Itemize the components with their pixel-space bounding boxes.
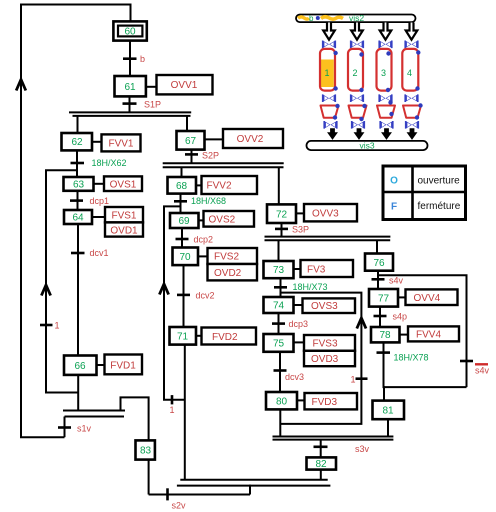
discharge arrow 3 (383, 129, 391, 139)
hollow arrow feed 2 (351, 23, 363, 40)
cylinder 1 with yellow charge (319, 49, 338, 91)
wire up to bottom convergence (249, 485, 251, 495)
svg-text:4: 4 (407, 68, 412, 78)
svg-text:ouverture: ouverture (418, 175, 461, 186)
step 67 (177, 131, 205, 150)
valve V4 top (405, 41, 418, 49)
wire 78 down to 81 (383, 342, 386, 400)
svg-text:FVS3: FVS3 (313, 339, 338, 350)
wire 62 to 63 (76, 150, 78, 177)
wire 83 down (148, 460, 150, 495)
hopper 4 (403, 103, 423, 119)
action OVV4 (406, 289, 458, 305)
wire 68 to FVV2 (196, 184, 202, 186)
transition s4p (374, 312, 408, 322)
svg-text:63: 63 (73, 179, 85, 190)
step 72 (267, 204, 296, 223)
svg-text:OVD1: OVD1 (110, 225, 138, 236)
transition s3v (314, 444, 370, 454)
action FVV4 (408, 326, 459, 341)
vis2 feeder bar (296, 13, 416, 23)
svg-text:ferméture: ferméture (418, 201, 461, 212)
svg-text:dcv3: dcv3 (285, 372, 304, 382)
wire 71 to FVD2 (196, 335, 202, 337)
discharge arrow 2 (355, 129, 363, 139)
wire 74 to OVS3 (294, 304, 303, 306)
action OVV2 (223, 129, 283, 148)
valve V3 mid (379, 94, 392, 102)
wire 68 to 69 (180, 194, 182, 213)
action OVD2 (208, 264, 258, 280)
wire main feedback loop left side (21, 5, 131, 438)
svg-text:OVV2: OVV2 (237, 134, 264, 145)
parallel line D1 (s1v divergence) (63, 411, 125, 417)
svg-text:s3v: s3v (355, 444, 370, 454)
wire s2v horizontal (149, 494, 250, 496)
wire 64 to 66 (77, 224, 79, 356)
svg-text:dcv1: dcv1 (90, 248, 109, 258)
hollow arrow feed 3 (380, 23, 392, 40)
transition 18H/X78 (377, 353, 429, 363)
valve V2 bottom (352, 121, 365, 129)
step 63 (64, 177, 94, 191)
svg-text:s4v: s4v (475, 366, 490, 376)
discharge arrow 4 (408, 129, 416, 139)
svg-text:S1P: S1P (144, 99, 161, 109)
step 71 (170, 327, 197, 345)
valve V4 bottom (406, 121, 419, 129)
svg-text:18H/X73: 18H/X73 (293, 282, 328, 292)
step 75 (264, 334, 294, 352)
svg-text:s4v: s4v (389, 275, 404, 285)
action FV3 (301, 260, 354, 277)
action FVV2 (202, 176, 258, 194)
wire 78 to FVV4 (400, 334, 409, 336)
vis3 collector bar (307, 140, 428, 150)
svg-text:78: 78 (379, 330, 391, 341)
svg-text:69: 69 (178, 216, 190, 227)
svg-text:76: 76 (373, 258, 385, 269)
valve V4 mid (405, 94, 418, 102)
valve V1 top (323, 41, 336, 49)
svg-text:F: F (391, 201, 397, 212)
discharge arrow 1 (329, 129, 337, 139)
wire OR-split to skip branch (378, 275, 467, 387)
action FVV1 (102, 134, 141, 151)
svg-text:1: 1 (351, 375, 356, 385)
wire S3P to step 76 (376, 240, 378, 253)
svg-text:S3P: S3P (292, 225, 309, 235)
wire S1P to step 62 (77, 116, 79, 133)
cylinder 2 (348, 49, 364, 92)
wire 61 to OVV1 (146, 86, 157, 88)
wire 80 to FVD3 (297, 399, 305, 401)
svg-text:b: b (309, 14, 314, 23)
svg-text:FVS1: FVS1 (111, 210, 136, 221)
step 81 (373, 401, 405, 420)
wire 69 to OVS2 (199, 219, 204, 221)
svg-text:68: 68 (176, 181, 188, 192)
svg-text:73: 73 (273, 265, 285, 276)
wire 75 to 80 (279, 352, 281, 392)
wire 76 to s4v (377, 271, 379, 289)
svg-text:FVD1: FVD1 (110, 360, 136, 371)
wire OR-join horizontal (384, 386, 467, 388)
svg-text:18H/X68: 18H/X68 (191, 196, 226, 206)
svg-text:vis2: vis2 (349, 13, 364, 23)
wire alt-branch 1 loop (46, 170, 78, 392)
wire 63 to OVS1 (94, 183, 105, 185)
transition dcv1 (71, 248, 109, 258)
action OVD1 (105, 222, 143, 236)
wire 75 to FVS3 (294, 341, 305, 343)
action FVD1 (105, 355, 143, 375)
wire 70 to 71 (183, 265, 185, 327)
svg-text:80: 80 (276, 396, 288, 407)
svg-text:67: 67 (185, 136, 197, 147)
wire 66 down to convergence (77, 375, 79, 411)
valve V3 top (379, 41, 392, 49)
wire 60 to 61 (129, 41, 131, 76)
transition dcv2 (177, 290, 215, 300)
wire 67 to S2P (191, 150, 193, 164)
action FVS3 (304, 335, 355, 351)
action OVS2 (204, 211, 255, 227)
svg-text:s2v: s2v (172, 500, 187, 510)
transition 1 (branch 1 loop) (40, 321, 60, 331)
svg-text:dcp2: dcp2 (194, 234, 214, 244)
svg-text:FVD2: FVD2 (212, 332, 238, 343)
svg-text:18H/X62: 18H/X62 (92, 158, 127, 168)
wire 66 to FVD1 (97, 364, 105, 366)
wire D3 to 82 (320, 440, 322, 458)
svg-text:OVS2: OVS2 (209, 215, 236, 226)
action OVV3 (304, 204, 357, 221)
svg-text:1: 1 (170, 405, 175, 415)
svg-text:dcp3: dcp3 (289, 319, 309, 329)
wire D1 to s1v (64, 417, 66, 438)
svg-text:dcv2: dcv2 (196, 290, 215, 300)
valve V1 mid (323, 94, 336, 102)
transition 18H/X62 (71, 158, 127, 168)
svg-text:83: 83 (140, 445, 152, 456)
wire 77 to 78 (379, 307, 381, 327)
svg-text:82: 82 (315, 459, 327, 470)
svg-text:62: 62 (71, 137, 83, 148)
transition dcp1 (70, 196, 109, 206)
wire S3P to step 73 (278, 240, 280, 261)
svg-text:72: 72 (276, 209, 288, 220)
wire 80 down to D3 convergence (279, 409, 281, 436)
transition dcp3 (272, 319, 308, 329)
step 62 (62, 133, 93, 150)
wire 67 to OVV2 (205, 138, 224, 140)
parallel join D3 double line (273, 437, 394, 440)
svg-text:vis3: vis3 (359, 140, 374, 150)
hopper 2 (349, 104, 367, 121)
svg-text:70: 70 (179, 252, 191, 263)
step 82 (307, 457, 337, 470)
wire 63 to 64 (77, 191, 79, 210)
arrow up on branch 2 loop (159, 284, 168, 295)
action FVD3 (305, 393, 358, 409)
wire S2P to step 72 (278, 167, 280, 204)
svg-text:18H/X78: 18H/X78 (394, 353, 429, 363)
svg-text:FVV1: FVV1 (108, 138, 133, 149)
svg-text:66: 66 (74, 361, 86, 372)
step 61 (115, 76, 146, 96)
wire 71 down to bottom convergence (184, 345, 186, 480)
transition dcp2 (176, 234, 214, 244)
wire alt-branch 3 loop (280, 293, 361, 424)
step 60 (initial, double border) (113, 21, 146, 40)
action FVS2 (208, 248, 258, 264)
wire 74 to 75 (278, 313, 280, 334)
wire 70 to FVS2 (198, 255, 208, 257)
step 80 (266, 392, 297, 409)
arrow up on feedback wire (16, 80, 26, 91)
wire 82 down to bottom convergence (320, 470, 322, 480)
valve V2 mid (351, 94, 364, 102)
wire 64 to FVS1 (92, 216, 105, 218)
wire 73 to FV3 (294, 268, 301, 270)
svg-text:3: 3 (381, 68, 386, 78)
svg-text:FVD3: FVD3 (312, 397, 338, 408)
action OVS1 (104, 176, 142, 191)
svg-text:O: O (390, 176, 398, 187)
step 83 (136, 440, 155, 459)
svg-text:b: b (140, 54, 145, 64)
svg-text:81: 81 (382, 406, 394, 417)
svg-text:FV3: FV3 (307, 264, 326, 275)
svg-text:61: 61 (124, 82, 136, 93)
svg-text:OVS3: OVS3 (311, 301, 338, 312)
wire 73 to 74 (280, 278, 282, 297)
transition S1P (123, 99, 162, 109)
transition b (123, 54, 145, 64)
action FVD2 (202, 328, 257, 345)
valve V1 bottom (324, 121, 337, 129)
parallel split S2P double line (163, 163, 284, 167)
step 76 (365, 254, 393, 271)
step 78 (371, 327, 400, 342)
valve V3 bottom (380, 121, 393, 129)
svg-text:OVD2: OVD2 (214, 268, 242, 279)
action OVV1 (157, 75, 213, 94)
svg-text:s4p: s4p (393, 312, 408, 322)
wire 62 to FVV1 (92, 141, 102, 143)
step 74 (264, 297, 294, 313)
svg-text:dcp1: dcp1 (90, 196, 110, 206)
svg-text:OVV1: OVV1 (171, 80, 198, 91)
transition s4v (372, 275, 404, 285)
svg-text:2: 2 (352, 68, 357, 78)
hopper 1 (321, 104, 340, 120)
hollow arrow feed 4 (406, 23, 418, 40)
wire 72 to OVV3 (296, 212, 304, 214)
wire S2P to step 68 (181, 167, 183, 177)
svg-text:1: 1 (324, 68, 329, 78)
wire 69 to 70 (181, 228, 183, 248)
parallel split S1P double line (69, 112, 191, 116)
svg-text:OVV3: OVV3 (312, 209, 339, 220)
transition 18H/X73 (274, 282, 328, 292)
hopper 3 (377, 100, 395, 118)
action OVD3 (304, 351, 355, 366)
wire 72 to S3P (281, 223, 283, 237)
cylinder 4 (402, 49, 420, 91)
step 77 (369, 289, 398, 307)
parallel split S3P double line (265, 237, 391, 241)
svg-text:75: 75 (273, 339, 285, 350)
transition not-s4v (460, 361, 490, 376)
svg-text:FVV2: FVV2 (207, 181, 232, 192)
legend table (383, 166, 466, 220)
transition 1 (branch 3 loop) (351, 375, 368, 385)
wire 81 down to D3 convergence (387, 419, 389, 436)
transition 18H/X68 (174, 196, 226, 206)
step 68 (168, 177, 197, 194)
svg-text:OVV4: OVV4 (414, 293, 441, 304)
action OVS3 (303, 298, 356, 313)
step 66 (64, 356, 97, 375)
bottom convergence double line (177, 480, 331, 486)
svg-text:1: 1 (55, 321, 60, 331)
wire 61 to S1P (129, 96, 131, 112)
wire alt-branch 2 loop (164, 206, 185, 399)
wire D1 up-right to step 83 (121, 397, 149, 440)
hollow arrow feed 1 (323, 23, 335, 40)
transition s2v (168, 488, 187, 510)
svg-text:FVV4: FVV4 (416, 330, 441, 341)
transition S3P (275, 225, 309, 235)
action FVS1 (105, 207, 143, 222)
valve V2 top (351, 41, 364, 49)
svg-text:s1v: s1v (77, 423, 92, 433)
wire S1P to step 67 (186, 116, 188, 131)
transition s1v (58, 423, 92, 433)
step 69 (170, 213, 199, 228)
step 70 (173, 248, 199, 266)
transition S2P (185, 151, 219, 161)
wire 77 to OVV4 (398, 296, 406, 298)
step 64 (64, 210, 92, 224)
svg-text:74: 74 (273, 301, 285, 312)
transition dcv3 (274, 371, 305, 382)
svg-text:S2P: S2P (202, 151, 219, 161)
svg-text:64: 64 (72, 213, 84, 224)
transition 1 (branch 2 loop) (170, 395, 175, 415)
svg-text:71: 71 (177, 332, 189, 343)
arrow up on branch 1 loop (41, 285, 50, 296)
svg-text:FVS2: FVS2 (214, 252, 239, 263)
step 73 (264, 261, 294, 278)
arrow up on branch 3 loop (357, 318, 366, 329)
cylinder 3 (377, 49, 392, 92)
svg-text:77: 77 (378, 293, 390, 304)
svg-text:60: 60 (124, 27, 136, 38)
svg-text:OVS1: OVS1 (110, 179, 137, 190)
svg-text:OVD3: OVD3 (311, 354, 339, 365)
